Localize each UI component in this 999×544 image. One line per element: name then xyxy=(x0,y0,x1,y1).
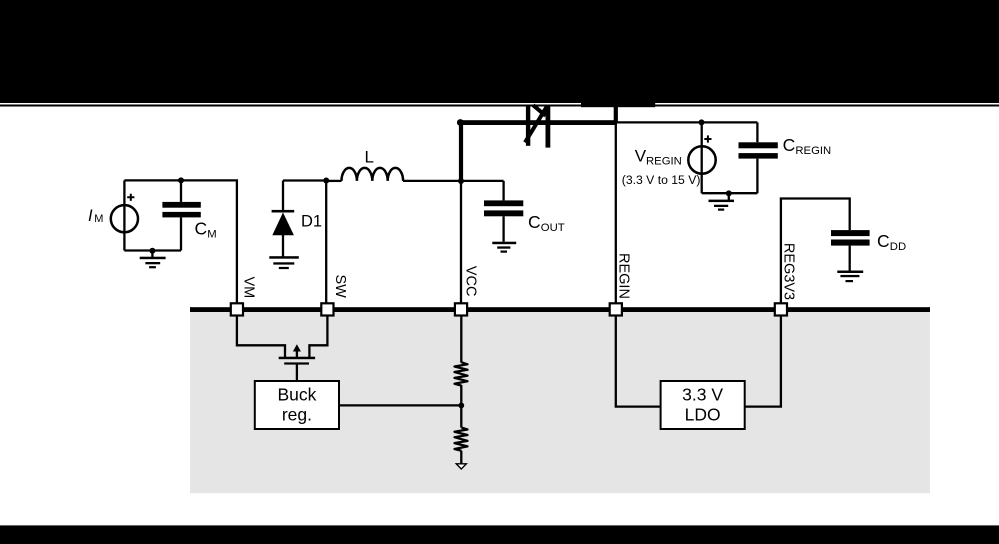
svg-text:(3.3 V to 15 V): (3.3 V to 15 V) xyxy=(622,173,701,187)
svg-text:SW: SW xyxy=(332,275,348,299)
svg-text:C: C xyxy=(195,219,208,239)
svg-text:VM: VM xyxy=(241,277,257,299)
svg-text:REG3V3: REG3V3 xyxy=(781,243,797,300)
svg-text:V: V xyxy=(635,147,647,166)
svg-text:DD: DD xyxy=(890,241,906,253)
svg-text:M: M xyxy=(94,213,103,225)
svg-text:LDO: LDO xyxy=(685,404,721,424)
svg-text:I: I xyxy=(88,207,93,225)
svg-text:reg.: reg. xyxy=(282,404,312,424)
svg-text:C: C xyxy=(783,135,796,155)
svg-text:3.3 V: 3.3 V xyxy=(682,385,723,405)
svg-text:REGIN: REGIN xyxy=(795,145,831,157)
svg-text:D1: D1 xyxy=(301,213,322,231)
svg-text:Buck: Buck xyxy=(277,385,316,405)
svg-text:C: C xyxy=(877,231,890,251)
svg-text:VCC: VCC xyxy=(463,266,479,297)
svg-text:M: M xyxy=(207,228,216,240)
svg-text:OUT: OUT xyxy=(541,222,565,234)
svg-text:REGIN: REGIN xyxy=(646,156,682,168)
svg-text:REGIN: REGIN xyxy=(616,253,632,299)
svg-text:C: C xyxy=(528,212,541,232)
svg-text:L: L xyxy=(365,148,374,167)
